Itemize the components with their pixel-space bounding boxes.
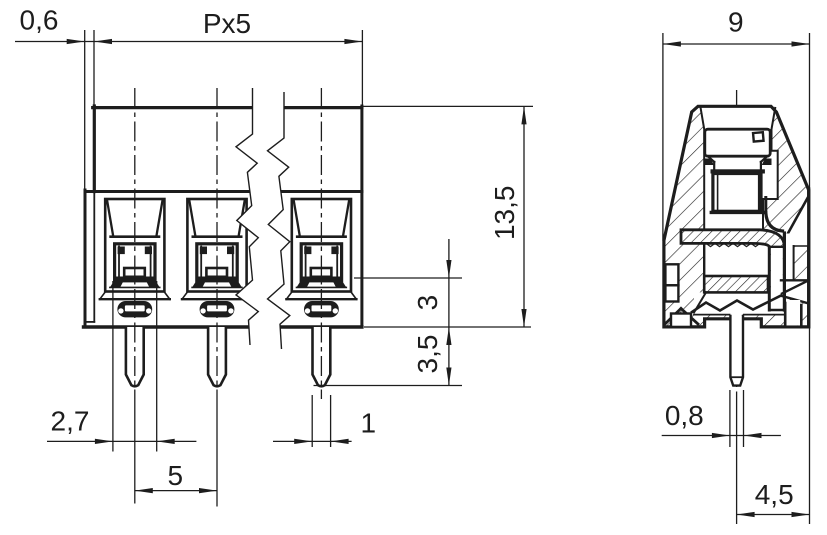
arrow 5 left [135,488,153,493]
side view sectioned housing outer profile, hatched [664,106,809,327]
clamp leg interior white [771,248,783,310]
screw slot [753,132,764,141]
screw body inner line left [717,175,719,210]
screw head chamfer right [761,156,767,162]
arrow 1 left [294,439,312,444]
arrow 1 right [331,439,349,444]
dimension line 4,5 [737,514,810,516]
housing shoulder line [85,190,362,193]
pole 1 centerline [134,88,136,399]
pole 2 [182,199,252,386]
terminal block front view body: upper housing top edge [93,106,362,109]
svg-text:0,6: 0,6 [20,5,59,36]
dimension line 2,7 [47,440,196,442]
extension line side body left (9 ref) [662,33,664,241]
lower housing left edge [84,190,87,327]
pole 2 centerline [216,88,218,399]
extension line cavity bottom (3 ref) [354,277,462,279]
svg-text:Px5: Px5 [203,8,251,39]
right foot column left wall [784,303,787,327]
washer band [711,169,765,173]
wire cavity left wall line [703,243,705,276]
clamp tab bend arc [766,213,783,232]
wire entry notch top line [781,279,809,281]
funnel inner wall left [701,108,705,230]
dimension line 9 [663,43,810,45]
upper housing left edge [93,106,96,192]
right foot column white [786,300,800,325]
left foot chevron left [665,309,681,325]
arrow 2,7 right [157,439,175,444]
left foot chevron right [681,309,698,325]
right face edge re-stroke [807,189,810,327]
arrow 13,5 bottom [521,309,526,327]
svg-text:9: 9 [728,7,744,38]
screw neck left [713,162,715,169]
break region white-out [236,88,290,349]
wire entry wedge white-out [788,197,808,246]
gap white between leg and wall [786,234,794,281]
dimension line 3 and 3,5 [448,239,450,386]
break zigzag line right [268,92,290,349]
pin hole white-out [732,314,742,327]
left foot notch [671,314,691,327]
pole 3 [286,199,356,386]
svg-text:4,5: 4,5 [755,479,794,510]
screw head [705,129,770,156]
extension line cavity right (2,7 ref) [156,281,158,452]
wire entry upper diagonal [788,197,808,234]
arrow 5 right [199,488,217,493]
under-bar and serration zone white-out [694,292,785,314]
screw body [713,174,761,212]
solder pin side view [730,316,743,386]
screw bottom edge [711,211,763,214]
svg-text:3,5: 3,5 [412,335,443,374]
extension line pin tip (3,5 ref) [314,385,463,387]
arrow 4,5 left [737,512,755,517]
arrow 0,6 left [67,39,85,44]
svg-text:1: 1 [361,408,377,439]
arrow 9 left [663,41,681,46]
housing outer profile outline [664,106,809,327]
cavity corner wedge right [762,159,772,166]
clamp leg bottom [769,309,784,312]
extension line side pin center (4,5 ref) [736,399,738,524]
funnel inner wall right with ledge step [763,108,778,230]
bottom-left pocket box upper [665,264,678,285]
arrow 4,5 right [792,512,810,517]
lower-left chamfer step line [86,321,94,323]
svg-text:2,7: 2,7 [51,406,90,437]
screw head chamfer left [708,156,714,162]
dimension line 0,6 and Px5 [15,41,362,43]
clamp leg inner line [768,247,771,310]
floor line right of pin [744,314,785,316]
arrow 3 bottom / 3,5 top [446,327,451,345]
wire entry upper slant [782,280,809,293]
arrow 0,6 right / Px5 left [94,39,112,44]
wire entry lower slant [782,296,809,304]
extension line cavity left (2,7 ref) [112,281,114,452]
extension line pin3 left (1 ref) [311,395,313,447]
svg-text:13,5: 13,5 [489,186,520,241]
right foot column right wall [800,305,803,327]
housing bottom edge [84,325,362,328]
extension line body bottom (3 / 13,5 ref) [364,326,531,328]
clamp band underside serration [706,243,760,246]
arrow 9 right [792,41,810,46]
screw body inner line right [758,175,760,210]
pole 1 [100,199,170,386]
wedge bottom boundary [794,245,809,247]
side view screw axis centerline [736,90,738,399]
right wall inner line below wedge [793,246,795,280]
clamp yoke band, metal hatch [681,230,784,247]
extension line top of body to 13,5 [362,105,533,107]
dimension line 13,5 [523,106,525,327]
housing right edge [360,106,363,327]
wire cavity white-out [704,243,769,276]
pin taper tick [730,376,743,378]
arrow 3,5 bottom [446,368,451,386]
arrow 0,8 left [712,433,730,438]
svg-text:5: 5 [168,460,184,491]
arrow 0,8 right [744,433,762,438]
dimension line 0,8 [662,435,781,437]
extension line side body right (9 / 4,5 ref) [809,33,811,524]
arrow 2,7 left [95,439,113,444]
serration teeth [692,296,781,313]
pole 3 centerline [320,88,322,399]
clamp upturned tab right of screw [764,198,767,214]
clamp leg outer line [783,233,786,310]
wire entry notch white-out [781,280,809,303]
arrow Px5 right [344,39,362,44]
extension line side pin right (0,8 ref) [743,390,745,447]
current bar, metal hatch [704,276,768,292]
arrow 13,5 top [521,106,526,124]
dimension line 1 [273,440,352,442]
extension line housing left upper (0,6 / Px5 ref) [93,30,95,106]
extension line side pin left (0,8 ref) [729,390,731,447]
cavity corner wedge left [704,159,714,166]
break zigzag line left [236,88,258,345]
extension line pole2 center (5 ref) [216,399,218,507]
floor line left of pin [694,314,730,316]
extension line housing left lower (0,6 ref) [84,30,86,190]
extension line pole1 center (5 ref) [134,399,136,504]
dimension line 5 [135,490,217,492]
arrow 3 top [446,260,451,278]
serration left slant [694,292,706,312]
svg-text:0,8: 0,8 [665,400,704,431]
extension line pin3 right (1 ref) [330,395,332,447]
inner edge of upper housing continued in lower part [93,193,95,322]
screw neck right [760,162,762,169]
svg-text:3: 3 [412,295,443,311]
central cavity white-out [701,106,778,229]
extension line housing right (Px5 ref) [361,30,363,105]
bottom-left pocket box lower [665,285,678,301]
